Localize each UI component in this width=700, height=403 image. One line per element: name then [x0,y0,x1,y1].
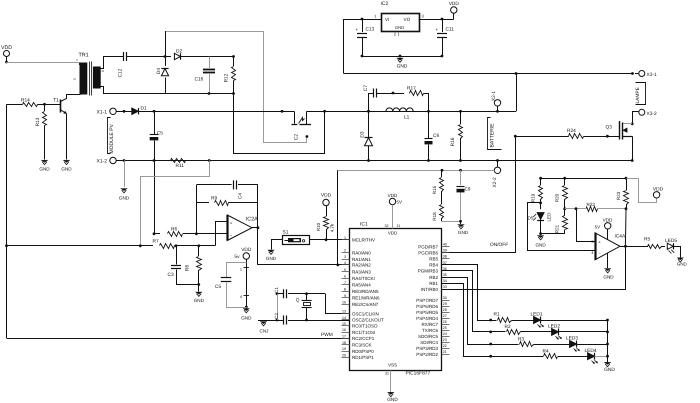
svg-text:VDD: VDD [1,45,12,51]
svg-text:4: 4 [591,251,593,255]
svg-text:21: 21 [443,350,447,354]
svg-text:C2: C2 [294,134,300,140]
svg-text:17: 17 [342,334,346,338]
svg-text:C3: C3 [168,272,174,278]
svg-text:1: 1 [240,268,242,272]
svg-text:R4: R4 [543,349,549,355]
svg-text:R18: R18 [432,212,437,221]
svg-text:C4: C4 [238,193,243,199]
svg-text:LED: LED [547,212,552,222]
svg-text:RA5/AN4: RA5/AN4 [352,283,371,288]
svg-text:L1: L1 [404,114,410,120]
svg-text:LED5: LED5 [665,238,677,244]
svg-text:+: + [230,221,233,226]
svg-text:RB5: RB5 [429,257,438,262]
svg-text:CNJ: CNJ [260,329,269,334]
svg-text:PGM/RB3: PGM/RB3 [418,269,439,274]
svg-text:14: 14 [342,316,346,320]
svg-text:PWM: PWM [321,332,333,338]
svg-text:−: − [598,251,601,256]
svg-text:Q3: Q3 [606,124,613,130]
svg-text:PSP7/RD7: PSP7/RD7 [416,298,438,303]
svg-text:VSS: VSS [388,363,397,368]
svg-text:RA1/AN1: RA1/AN1 [352,257,371,262]
svg-text:D4: D4 [156,68,162,74]
svg-text:C12: C12 [118,68,124,77]
svg-text:26: 26 [443,320,447,324]
svg-text:Q: Q [296,298,300,304]
svg-text:VDD: VDD [603,218,613,223]
svg-text:5v: 5v [234,254,240,260]
svg-text:VDD: VDD [388,193,398,198]
svg-text:C13: C13 [366,27,375,33]
svg-text:+: + [436,27,439,32]
svg-text:R10: R10 [316,222,321,231]
svg-text:OSC2/CLKOUT: OSC2/CLKOUT [352,318,384,323]
svg-text:9: 9 [344,294,346,298]
svg-text:4: 4 [240,295,242,299]
svg-text:LED4: LED4 [585,348,597,354]
svg-text:X2-2: X2-2 [492,177,498,187]
svg-text:1: 1 [344,236,346,240]
svg-text:C7: C7 [363,85,369,91]
svg-text:VDD: VDD [241,247,252,253]
svg-text:R23: R23 [616,191,621,200]
svg-text:8: 8 [344,287,346,291]
svg-text:LAMPE: LAMPE [635,87,641,103]
svg-text:GND: GND [395,25,404,30]
svg-text:X1-1: X1-1 [97,109,108,115]
svg-text:RD0/PSP0: RD0/PSP0 [352,349,374,354]
svg-text:VDD: VDD [449,1,460,7]
svg-text:IC2A: IC2A [246,216,258,222]
svg-text:RB2: RB2 [429,275,438,280]
svg-text:RA3/AN3: RA3/AN3 [352,270,371,275]
svg-text:OSC1/CLKIN: OSC1/CLKIN [352,311,379,316]
svg-text:RB4: RB4 [429,263,438,268]
svg-text:R17: R17 [407,86,416,92]
svg-text:C5: C5 [215,284,221,290]
svg-text:24: 24 [443,332,447,336]
svg-text:VDD: VDD [388,231,397,236]
svg-text:PGC/RB6: PGC/RB6 [418,250,438,255]
svg-text:IC1: IC1 [360,222,368,228]
svg-text:R12: R12 [224,73,230,82]
svg-text:TX/RC6: TX/RC6 [422,328,439,333]
svg-text:GND: GND [241,316,252,321]
svg-text:RB1: RB1 [429,281,438,286]
svg-text:RC1/T1OSI: RC1/T1OSI [352,330,375,335]
svg-text:X3-2: X3-2 [647,111,657,117]
svg-text:R16: R16 [450,137,456,146]
svg-text:34: 34 [443,279,447,283]
svg-text:ON/OFF: ON/OFF [490,242,508,248]
svg-text:13: 13 [342,310,346,314]
svg-text:RD1/PSP1: RD1/PSP1 [352,355,374,360]
svg-text:32: 32 [385,224,389,228]
svg-text:15: 15 [342,322,346,326]
svg-text:R15: R15 [432,185,437,194]
svg-text:5: 5 [344,268,346,272]
svg-text:X2-1: X2-1 [491,91,497,101]
svg-text:5V: 5V [397,200,402,205]
svg-text:C5: C5 [157,131,163,137]
svg-text:R24: R24 [567,128,576,134]
svg-text:R6: R6 [171,227,177,233]
svg-text:11: 11 [397,224,401,228]
svg-text:40: 40 [443,243,447,247]
svg-text:RX/RC7: RX/RC7 [421,322,438,327]
svg-text:R5: R5 [644,237,650,243]
svg-text:R1: R1 [494,312,500,318]
svg-text:GND: GND [387,397,398,402]
svg-text:C11: C11 [446,27,455,33]
svg-text:PSP2/RD2: PSP2/RD2 [416,352,438,357]
svg-text:+: + [598,240,601,245]
svg-text:VO: VO [404,17,411,22]
svg-text:PSP3/RD3: PSP3/RD3 [416,346,438,351]
svg-text:4.7k: 4.7k [330,223,335,232]
svg-text:PIC16F877: PIC16F877 [406,371,431,377]
svg-text:10: 10 [342,300,346,304]
svg-text:39: 39 [443,249,447,253]
svg-text:5: 5 [73,78,77,80]
svg-text:R2: R2 [505,324,511,330]
svg-text:GND: GND [604,367,615,373]
svg-text:R21: R21 [554,224,559,233]
svg-text:2: 2 [344,249,346,253]
svg-text:VDD: VDD [321,193,332,199]
svg-text:R7: R7 [153,238,159,244]
svg-text:25: 25 [443,326,447,330]
svg-text:T1: T1 [53,98,59,104]
svg-text:INT/RB0: INT/RB0 [421,287,439,292]
svg-text:RA4/T0CKI: RA4/T0CKI [352,276,375,281]
svg-text:PSP5/RD5: PSP5/RD5 [416,310,438,315]
svg-text:X1-2: X1-2 [97,159,108,165]
svg-text:R20: R20 [554,193,559,202]
svg-text:PGD/RB7: PGD/RB7 [418,244,438,249]
svg-text:RE1/WR/AN6: RE1/WR/AN6 [352,296,380,301]
svg-text:28: 28 [443,308,447,312]
svg-text:+: + [356,27,359,32]
svg-text:SDO/RC5: SDO/RC5 [418,334,439,339]
svg-text:30: 30 [443,296,447,300]
svg-text:GND: GND [194,298,205,303]
svg-text:16: 16 [342,328,346,332]
svg-text:8: 8 [101,70,105,72]
svg-text:S1: S1 [283,230,289,236]
svg-text:3: 3 [591,240,593,244]
svg-text:22: 22 [443,344,447,348]
svg-text:38: 38 [443,255,447,259]
svg-text:R11: R11 [176,163,185,169]
svg-text:PSP6/RD6: PSP6/RD6 [416,304,438,309]
svg-text:D2: D2 [176,49,182,55]
svg-text:R9: R9 [211,196,217,202]
svg-text:R22: R22 [587,202,596,207]
svg-text:19: 19 [342,347,346,351]
svg-text:RA0/AN0: RA0/AN0 [352,250,371,255]
svg-text:RE0/RD/AN5: RE0/RD/AN5 [352,289,379,294]
svg-text:PSP4/RD4: PSP4/RD4 [416,316,438,321]
svg-text:C16: C16 [195,77,204,83]
svg-text:20: 20 [342,353,346,357]
svg-text:R8: R8 [185,265,191,271]
svg-text:31: 31 [385,372,389,376]
svg-text:IC4A: IC4A [615,234,626,240]
svg-text:GND: GND [119,196,130,201]
svg-text:1: 1 [76,58,78,62]
svg-text:D1: D1 [141,106,147,112]
svg-text:RC2/CCP1: RC2/CCP1 [352,336,375,341]
svg-text:BATTERIE: BATTERIE [490,123,496,148]
svg-text:R13: R13 [35,117,41,126]
svg-text:IC2: IC2 [381,1,389,7]
svg-text:C9: C9 [465,187,471,192]
svg-text:23: 23 [443,338,447,342]
svg-text:LED3: LED3 [566,336,578,342]
svg-text:VDD: VDD [653,186,664,192]
svg-text:GND: GND [266,256,277,261]
svg-text:29: 29 [443,302,447,306]
svg-text:C1: C1 [274,287,279,293]
svg-text:RA2/AN2: RA2/AN2 [352,263,371,268]
svg-text:7: 7 [344,281,346,285]
svg-text:C2: C2 [274,313,279,319]
svg-text:−: − [230,233,233,238]
svg-text:5V: 5V [595,225,600,230]
svg-text:D3: D3 [359,131,365,137]
svg-text:TR1: TR1 [79,53,89,59]
svg-text:LED1: LED1 [531,312,543,318]
svg-text:RE2/CS/AN7: RE2/CS/AN7 [352,302,379,307]
svg-text:GND: GND [458,230,469,235]
svg-text:SDI/RC4: SDI/RC4 [420,340,438,345]
svg-text:GND: GND [677,262,687,267]
svg-text:RC0/T1OSO: RC0/T1OSO [352,324,378,329]
svg-text:3: 3 [344,255,346,259]
svg-text:18: 18 [342,341,346,345]
svg-text:GND: GND [603,275,614,280]
svg-text:D5: D5 [528,216,534,221]
svg-text:C6: C6 [433,133,439,139]
svg-text:GND: GND [397,64,408,70]
svg-text:35: 35 [443,273,447,277]
svg-text:33: 33 [443,285,447,289]
svg-text:MCLR/THV: MCLR/THV [352,238,375,243]
svg-text:4: 4 [344,261,346,265]
svg-text:6: 6 [344,274,346,278]
svg-text:MODULE PV: MODULE PV [109,123,115,153]
svg-text:GND: GND [39,167,50,172]
svg-text:VI: VI [385,17,389,22]
svg-text:RC3/SCK: RC3/SCK [352,343,372,348]
svg-text:LED2: LED2 [548,323,560,329]
svg-text:27: 27 [443,314,447,318]
svg-text:GND: GND [61,167,72,172]
svg-text:R3: R3 [518,336,524,342]
svg-text:GND: GND [535,243,546,248]
svg-text:X3-1: X3-1 [647,72,657,78]
svg-text:R19: R19 [531,193,536,202]
